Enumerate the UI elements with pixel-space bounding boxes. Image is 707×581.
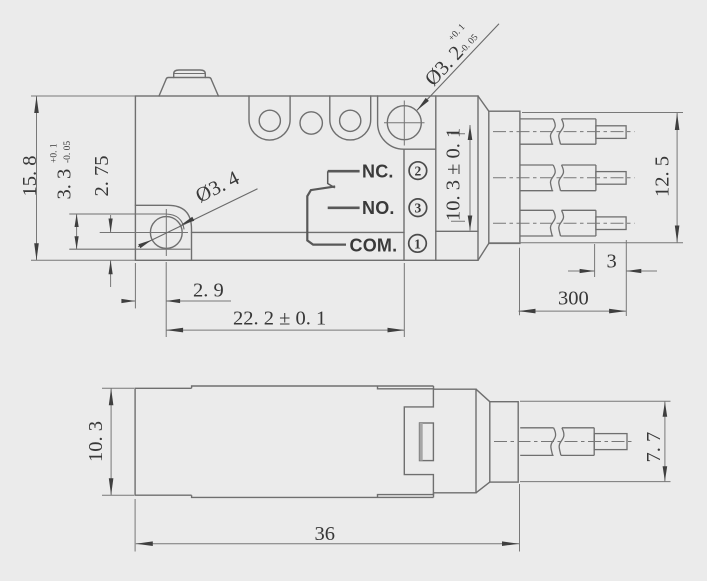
- seam line: [192, 231, 479, 232]
- svg-text:3: 3: [415, 201, 422, 216]
- big hole crosshair: [384, 101, 425, 146]
- latch C bracket: [378, 386, 434, 497]
- svg-text:1: 1: [414, 236, 421, 251]
- dim 7.7: [520, 401, 671, 481]
- wire 2: [520, 165, 553, 191]
- dim 15.8: [31, 96, 135, 260]
- switch symbol: [307, 171, 359, 244]
- wire 3: [520, 210, 553, 236]
- svg-text:2. 9: 2. 9: [193, 280, 224, 302]
- dim 22.2: [166, 329, 404, 331]
- connector block bottom view: [490, 402, 518, 482]
- dim 2.9: [122, 300, 231, 302]
- svg-text:15. 8: 15. 8: [19, 156, 41, 197]
- NC lead: [328, 170, 360, 173]
- body outline top view: [135, 96, 478, 260]
- svg-text:2: 2: [415, 164, 422, 179]
- U tab 2: [330, 96, 371, 140]
- svg-text:NC.: NC.: [362, 162, 394, 182]
- svg-text:36: 36: [315, 523, 336, 545]
- dia 3.2 leader arrow: [417, 98, 429, 110]
- crosshairs: [100, 101, 425, 338]
- dim 2.75: [110, 215, 112, 287]
- 3.3 with tolerance: [50, 141, 76, 200]
- latch inner rect: [420, 423, 434, 461]
- dim 22.2 arrows: [166, 328, 183, 333]
- dim 2.75 arrows: [109, 219, 113, 233]
- dim 3.3 arrows: [75, 214, 79, 227]
- column line extension below: [403, 263, 405, 337]
- dim 10.3+-0.1: [451, 125, 470, 231]
- svg-text:12. 5: 12. 5: [652, 156, 674, 197]
- dim 10.3 bottom arrows: [109, 388, 114, 405]
- dim 36: [135, 484, 519, 552]
- left cap: [135, 388, 192, 495]
- dia 3.2 with tolerance: [416, 21, 483, 90]
- taper: [476, 389, 490, 493]
- dim 3.3: [76, 214, 78, 249]
- circle in tab1: [259, 110, 280, 131]
- dim 3: [568, 240, 657, 316]
- big hole tab: [378, 96, 436, 149]
- svg-text:10. 3 ± 0. 1: 10. 3 ± 0. 1: [443, 128, 465, 221]
- dim 2.9 arrows: [121, 299, 135, 303]
- dim 12.5: [489, 113, 683, 243]
- wire 1: [520, 119, 553, 144]
- dim 300 arrows: [519, 309, 536, 314]
- connector block: [489, 111, 520, 243]
- svg-text:2. 75: 2. 75: [91, 156, 113, 197]
- leader for dia 3.4: [138, 189, 258, 247]
- dim 7.7 arrows: [663, 402, 668, 417]
- dim 12.5 arrows: [675, 113, 680, 130]
- neck trapezoid right: [478, 96, 489, 260]
- bottom-left tab bottom line: [70, 248, 190, 250]
- dim 3 arrows: [580, 269, 595, 273]
- dim 300: [519, 248, 627, 315]
- svg-text:3: 3: [607, 251, 617, 273]
- circle in tab2: [340, 110, 361, 131]
- small hole circle: [150, 217, 182, 249]
- arrowheads: [34, 96, 679, 332]
- svg-text:+0. 1: +0. 1: [50, 143, 60, 163]
- svg-text:7. 7: 7. 7: [643, 432, 665, 463]
- svg-text:COM.: COM.: [350, 236, 398, 256]
- svg-text:NO.: NO.: [362, 198, 395, 218]
- dimension lines: [31, 96, 683, 330]
- blade and COM: [307, 186, 346, 244]
- bottom view dims: [102, 388, 671, 551]
- wires top view: [520, 119, 626, 236]
- bottom-left tab inner line: [70, 214, 184, 229]
- leader for dia 3.2: [417, 24, 499, 111]
- leader lines: [138, 24, 499, 247]
- small hole crosshair + extensions: [100, 209, 188, 256]
- right section: [434, 389, 477, 493]
- button cap: [174, 70, 206, 78]
- dimension texts: [19, 21, 674, 329]
- middle right edge connectors: [433, 386, 435, 497]
- wire centerlines: [493, 132, 635, 224]
- big hole circle: [387, 106, 421, 140]
- svg-text:22. 2 ± 0. 1: 22. 2 ± 0. 1: [233, 308, 326, 330]
- circled 2: [409, 162, 427, 252]
- svg-text:300: 300: [558, 288, 589, 310]
- dim 10.3: [102, 388, 134, 495]
- middle rect top/bottom: [192, 386, 434, 497]
- svg-text:-0. 05: -0. 05: [63, 141, 73, 163]
- svg-text:3. 3: 3. 3: [54, 169, 76, 200]
- NO lead: [328, 207, 360, 210]
- dia 3.4 arrows: [138, 240, 152, 248]
- dim 36 arrows: [136, 541, 153, 546]
- bottom wire centerline: [494, 441, 635, 443]
- button trapezoid: [159, 78, 218, 97]
- dim 15.8 arrows: [34, 96, 39, 113]
- svg-text:10. 3: 10. 3: [85, 421, 107, 462]
- bottom-left tab outer: [135, 205, 191, 260]
- NC stub: [328, 171, 335, 188]
- column right line: [435, 96, 437, 260]
- dim 10.3 arrows: [468, 125, 473, 140]
- middle circle: [300, 112, 322, 134]
- column left line: [403, 149, 405, 260]
- U tab 1: [249, 96, 290, 140]
- body left edge extension below: [134, 263, 136, 308]
- bottom view wire: [520, 428, 627, 456]
